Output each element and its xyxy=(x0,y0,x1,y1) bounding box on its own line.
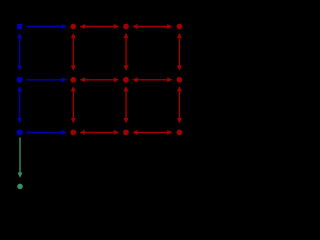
arrowhead right into red node row2 col2 xyxy=(62,77,67,82)
wire blue vertical edge col1 row1-row2 xyxy=(19,37,21,66)
wire blue horizontal edge row1 xyxy=(26,26,62,28)
arrowhead up into red node row1 col4 xyxy=(177,33,182,38)
arrowhead down into red node row2 col3 xyxy=(124,65,129,70)
arrowhead left into red node row2 col2 xyxy=(80,77,85,82)
grid graph diagram xyxy=(0,0,278,200)
wire red vertical edge col2 row1-row2 xyxy=(72,37,74,66)
arrowhead right into red node row1 col3 xyxy=(114,24,119,29)
arrowhead left into red node row3 col3 xyxy=(132,130,137,135)
arrowhead right into red node row2 col4 xyxy=(167,77,172,82)
arrowhead left into red node row2 col3 xyxy=(132,77,137,82)
arrowhead up into blue node row2 xyxy=(17,86,22,91)
arrowhead up into blue node row1 xyxy=(17,33,22,38)
node red circle row1 col2 xyxy=(70,24,76,30)
node green terminal dot xyxy=(17,184,23,190)
arrowhead down into blue node row3 xyxy=(17,118,22,123)
node red circle row1 col4 xyxy=(177,24,183,30)
wire red horizontal edge row2 col3-col4 xyxy=(137,79,169,81)
arrowhead right into red node row3 col2 xyxy=(62,130,67,135)
arrowhead left into red node row1 col2 xyxy=(80,24,85,29)
arrowhead right into red node row3 col3 xyxy=(114,130,119,135)
wire red horizontal edge row3 col3-col4 xyxy=(137,131,169,133)
arrowhead right into red node row2 col3 xyxy=(114,77,119,82)
wire blue vertical edge col1 row2-row3 xyxy=(19,90,21,119)
node red circle row3 col2 xyxy=(70,130,76,136)
node red circle row3 col4 xyxy=(177,130,183,136)
wire red horizontal edge row1 col3-col4 xyxy=(137,26,169,28)
node blue circle row2 xyxy=(17,77,23,83)
wire blue horizontal edge row3 xyxy=(26,131,62,133)
arrowhead down into red node row2 col4 xyxy=(177,65,182,70)
arrowhead right into red node row1 col4 xyxy=(167,24,172,29)
wire blue horizontal edge row2 xyxy=(26,79,62,81)
arrowhead up into red node row2 col4 xyxy=(177,86,182,91)
wire red horizontal edge row1 col2-col3 xyxy=(84,26,115,28)
arrowhead up into red node row2 col3 xyxy=(124,86,129,91)
arrowhead left into red node row1 col3 xyxy=(132,24,137,29)
wire green exit edge xyxy=(19,137,21,173)
arrowhead up into red node row1 col3 xyxy=(124,33,129,38)
arrowhead right into red node row1 col2 xyxy=(62,24,67,29)
arrowhead down into blue node row2 xyxy=(17,65,22,70)
node red circle row3 col3 xyxy=(123,130,129,136)
arrowhead right into red node row3 col4 xyxy=(167,130,172,135)
wire red vertical edge col2 row2-row3 xyxy=(72,90,74,119)
wire red vertical edge col4 row2-row3 xyxy=(178,90,180,119)
node red circle row2 col3 xyxy=(123,77,129,83)
arrowhead down into red node row3 col2 xyxy=(71,118,76,123)
arrowhead down into red node row2 col2 xyxy=(71,65,76,70)
arrowhead down into green terminal node xyxy=(18,173,23,178)
node red circle row1 col3 xyxy=(123,24,129,30)
node blue circle row3 xyxy=(17,129,23,135)
node red circle row2 col2 xyxy=(70,77,76,83)
wire red vertical edge col3 row2-row3 xyxy=(125,90,127,119)
node red circle row2 col4 xyxy=(177,77,183,83)
arrowhead up into red node row1 col2 xyxy=(71,33,76,38)
wire red horizontal edge row3 col2-col3 xyxy=(84,131,115,133)
wire red vertical edge col4 row1-row2 xyxy=(178,37,180,66)
node blue square start row1 xyxy=(17,24,22,29)
arrowhead down into red node row3 col4 xyxy=(177,118,182,123)
wire red vertical edge col3 row1-row2 xyxy=(125,37,127,66)
arrowhead up into red node row2 col2 xyxy=(71,86,76,91)
wire red horizontal edge row2 col2-col3 xyxy=(84,79,115,81)
arrowhead left into red node row3 col2 xyxy=(80,130,85,135)
arrowhead down into red node row3 col3 xyxy=(124,118,129,123)
